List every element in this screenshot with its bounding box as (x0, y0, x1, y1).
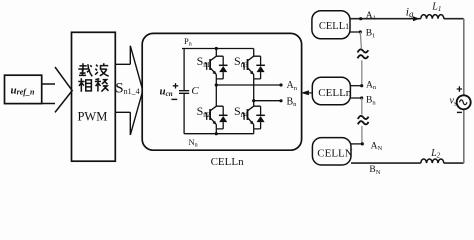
svg-text:Nn: Nn (189, 137, 198, 149)
plus sign source (457, 86, 462, 91)
svg-text:Bn: Bn (366, 96, 376, 107)
CELL1 box (312, 11, 350, 39)
svg-text:Sn1_4: Sn1_4 (115, 80, 139, 96)
svg-text:CELLN: CELLN (317, 147, 352, 159)
plus sign capacitor (173, 83, 178, 88)
svg-text:L2: L2 (430, 148, 441, 160)
hanzi xiang (78, 78, 91, 92)
svg-text:Sn1: Sn1 (197, 54, 211, 69)
CELLn detail enclosure (142, 33, 301, 150)
series link B1-An (360, 32, 362, 86)
svg-text:CELL1: CELL1 (319, 21, 349, 32)
CELLn box (312, 77, 350, 105)
svg-text:BN: BN (369, 165, 380, 176)
dc bus bottom rail (184, 133, 254, 135)
block arrow uref to PWM (42, 67, 72, 112)
minus sign capacitor (171, 98, 177, 100)
capacitor branch wire (183, 49, 185, 134)
igbt S_n3 (242, 56, 265, 79)
svg-text:Sn4: Sn4 (234, 104, 248, 119)
terminal dot A1 (359, 17, 362, 20)
block arrow PWM to CELLn with gate signals (115, 46, 142, 135)
hanzi yi (95, 79, 109, 92)
terminal dot AN (361, 142, 364, 145)
dc bus top rail (182, 48, 254, 50)
capacitor C plates (179, 91, 189, 94)
ac source vs (457, 95, 471, 109)
svg-text:ig: ig (406, 6, 414, 19)
igbt S_n2 (205, 106, 228, 129)
terminal An wire (350, 85, 361, 87)
hanzi bo (95, 63, 109, 76)
svg-text:B1: B1 (366, 29, 376, 40)
svg-text:AN: AN (371, 141, 383, 152)
svg-text:ucn: ucn (160, 86, 173, 99)
svg-text:CELLn: CELLn (211, 156, 244, 168)
svg-text:vs: vs (450, 96, 457, 108)
CELLN box (312, 138, 351, 165)
svg-text:Sn3: Sn3 (234, 54, 248, 69)
hanzi zai (78, 63, 92, 76)
inductor L2 (421, 159, 444, 163)
svg-text:CELLn: CELLn (318, 87, 351, 99)
output line An (216, 84, 281, 86)
igbt S_n1 (205, 56, 228, 79)
current ig arrowhead (413, 16, 420, 21)
terminal B1 wire (350, 31, 360, 33)
igbt S_n4 (242, 106, 265, 129)
svg-text:L1: L1 (431, 2, 441, 14)
terminal dot An (360, 84, 363, 87)
PWM block (72, 32, 116, 161)
leg stub wires (216, 49, 253, 134)
inductor L1 (421, 15, 444, 19)
svg-text:A1: A1 (366, 11, 376, 22)
arrow CELLn box to enclosure (309, 92, 313, 94)
svg-text:Bn: Bn (287, 96, 298, 108)
reference input block uref_n (5, 75, 42, 103)
terminal BN / grid bottom rail (351, 162, 464, 164)
svg-text:An: An (287, 80, 298, 92)
series link Bn-AN (361, 98, 363, 144)
terminal dot Bn (360, 96, 363, 99)
svg-text:C: C (191, 85, 199, 97)
terminal Bn wire (350, 97, 361, 99)
terminal AN wire (351, 143, 362, 145)
svg-text:PWM: PWM (77, 110, 107, 124)
terminal dot B1 (359, 30, 362, 33)
grid right wire (463, 19, 465, 163)
minus sign source (457, 111, 462, 113)
svg-text:Pn: Pn (184, 36, 192, 48)
svg-text:An: An (366, 80, 377, 91)
terminal A1 wire / grid top rail (350, 18, 464, 20)
junction dots bridge (215, 47, 283, 135)
svg-text:uref_n: uref_n (11, 85, 35, 97)
break squiggle 1 (358, 49, 369, 52)
output line Bn (254, 100, 281, 102)
svg-text:Sn2: Sn2 (197, 104, 211, 119)
break squiggle 2 (358, 116, 369, 119)
